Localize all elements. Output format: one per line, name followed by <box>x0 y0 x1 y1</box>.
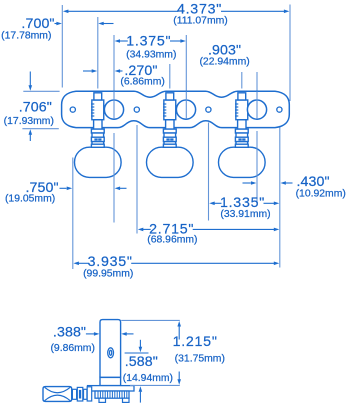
svg-text:(19.05mm): (19.05mm) <box>5 194 55 205</box>
screw hole 3 <box>206 107 211 112</box>
svg-text:1.215": 1.215" <box>173 334 218 350</box>
post centerlines over plate <box>114 92 257 223</box>
tuner unit 1 <box>75 93 124 178</box>
.430 dim <box>243 182 251 184</box>
svg-text:(111.07mm): (111.07mm) <box>173 16 227 27</box>
svg-text:.388": .388" <box>53 325 86 341</box>
svg-text:(31.75mm): (31.75mm) <box>175 354 225 365</box>
.700 dim <box>55 23 58 25</box>
1.375 dim <box>120 40 128 42</box>
arrowheads top view <box>29 10 290 266</box>
svg-text:1.375": 1.375" <box>126 34 171 50</box>
.388 dim <box>86 333 94 335</box>
plate outline <box>62 91 290 127</box>
extension lines <box>22 5 290 270</box>
.706 dim <box>29 72 31 86</box>
svg-text:(99.95mm): (99.95mm) <box>83 268 133 279</box>
bracket plate edge <box>88 386 135 391</box>
button side view <box>43 387 72 402</box>
side view extension lines <box>121 320 180 385</box>
svg-text:.706": .706" <box>19 100 52 116</box>
svg-text:(22.94mm): (22.94mm) <box>199 56 249 67</box>
worm gear knurl <box>95 391 129 398</box>
string hole <box>108 348 114 358</box>
3.935 dim <box>78 262 89 264</box>
svg-text:(68.96mm): (68.96mm) <box>147 235 197 246</box>
1.335 dim <box>214 202 222 204</box>
tuner unit 3 <box>219 93 267 178</box>
svg-text:(17.93mm): (17.93mm) <box>4 116 54 127</box>
.270 dim <box>83 70 93 72</box>
svg-text:(14.94mm): (14.94mm) <box>123 373 173 384</box>
svg-text:.588": .588" <box>125 354 158 370</box>
collar under post <box>100 377 121 385</box>
svg-text:(34.93mm): (34.93mm) <box>126 49 176 60</box>
1.215 dim <box>178 327 180 340</box>
string post side <box>100 320 121 378</box>
svg-text:(10.92mm): (10.92mm) <box>296 189 346 200</box>
2.715 dim <box>143 228 151 230</box>
4.373 dim line <box>67 10 178 12</box>
side view dim lines <box>86 327 179 403</box>
screw hole 4 <box>277 107 282 112</box>
tuner unit 2 <box>147 93 196 178</box>
screw hole 1 <box>70 107 75 112</box>
screw hole 2 <box>134 107 139 112</box>
.588 dim <box>125 352 149 354</box>
.750 dim <box>60 187 67 189</box>
svg-text:(17.78mm): (17.78mm) <box>1 31 51 42</box>
svg-text:(33.91mm): (33.91mm) <box>220 209 270 220</box>
svg-text:(9.86mm): (9.86mm) <box>50 343 94 354</box>
svg-text:(6.86mm): (6.86mm) <box>120 77 164 88</box>
gear feet <box>99 398 106 402</box>
shaft collars side <box>72 389 76 399</box>
